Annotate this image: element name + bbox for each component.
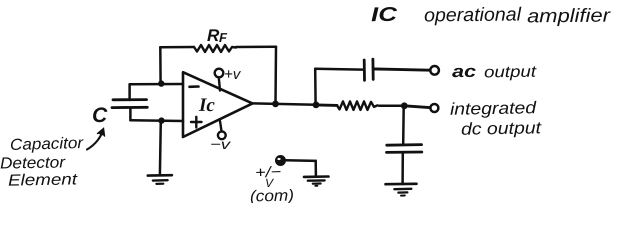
svg-text:C: C (92, 104, 108, 127)
resistor RF zigzag (194, 45, 236, 52)
op-amp +V pin wire (219, 78, 220, 91)
resistor dc branch zigzag (337, 101, 378, 110)
wire integrator cap vertical (402, 106, 405, 144)
label Capacitor Detector Element (0, 135, 84, 190)
wire feedback right vertical (274, 47, 277, 104)
op-amp U1 minus input symbol (190, 85, 199, 88)
svg-text:−v: −v (210, 136, 231, 152)
wire capacitor to ac output terminal (373, 69, 430, 70)
svg-text:Element: Element (8, 171, 78, 189)
svg-text:dc output: dc output (461, 118, 543, 138)
com terminal circle (276, 156, 284, 164)
ac output terminal circle (430, 66, 439, 75)
node dc output junction (401, 102, 408, 109)
label integrated dc output (450, 98, 543, 138)
label ac output (452, 62, 537, 82)
op-amp -V pin wire (220, 121, 222, 131)
wire junction to dc output terminal (404, 106, 429, 108)
wire non-inverting rail to ground (159, 121, 162, 175)
label RF (207, 26, 228, 45)
svg-text:operational: operational (424, 4, 522, 26)
svg-text:(com): (com) (250, 187, 294, 203)
capacitor ac-coupling right plate (371, 59, 374, 79)
capacitor C bottom plate (112, 106, 147, 109)
node output/feedback junction (272, 101, 279, 108)
svg-text:Ic: Ic (198, 95, 216, 116)
op-amp +V terminal circle (215, 69, 224, 78)
wire feedback top left segment (160, 46, 194, 49)
capacitor C top plate (113, 98, 147, 101)
svg-text:output: output (484, 64, 537, 82)
ground G2 at com (304, 177, 329, 186)
op-amp U1 triangle (183, 72, 253, 137)
ground G3 under integrator cap (386, 184, 417, 196)
wire dc branch left segment (316, 103, 337, 106)
capacitor C bottom stub (129, 108, 132, 121)
svg-text:integrated: integrated (450, 98, 537, 119)
wire resistor to dc junction (379, 104, 404, 107)
op-amp U1 plus input symbol (191, 117, 202, 128)
wire non-inverting input rail (131, 119, 184, 122)
capacitor integrator top plate (387, 143, 422, 146)
wire op-amp output (253, 103, 317, 104)
wire ac branch top horizontal (315, 67, 362, 70)
svg-text:amplifier: amplifier (527, 6, 611, 28)
dc output terminal circle (430, 104, 438, 112)
svg-text:F: F (219, 30, 228, 45)
annotation arrow to capacitor C (87, 129, 105, 150)
node ac-branch junction (313, 102, 320, 109)
com terminal scribble highlight (277, 158, 280, 160)
node ground junction on non-inverting rail (158, 117, 164, 123)
capacitor integrator bottom plate (387, 151, 422, 154)
svg-text:IC: IC (371, 4, 398, 26)
svg-text:Detector: Detector (0, 154, 66, 172)
capacitor ac-coupling left plate (363, 60, 366, 80)
wire com terminal to ground (285, 160, 316, 176)
title text "IC operational amplifier" (371, 4, 611, 28)
label +/- V (com) (250, 164, 294, 206)
wire integrator cap to ground (401, 152, 404, 184)
op-amp -V terminal circle (218, 131, 226, 139)
ground G1 under input rail (148, 175, 172, 184)
capacitor C detector element : top stub (128, 84, 131, 100)
wire inverting input rail (130, 83, 183, 86)
wire feedback top right segment (236, 46, 276, 49)
svg-text:Capacitor: Capacitor (10, 135, 84, 154)
svg-text:ac: ac (452, 62, 477, 81)
svg-text:+v: +v (224, 66, 242, 83)
node: feedback junction on inverting rail (158, 80, 164, 86)
wire feedback left vertical (159, 47, 162, 83)
wire ac branch vertical up (314, 69, 317, 105)
